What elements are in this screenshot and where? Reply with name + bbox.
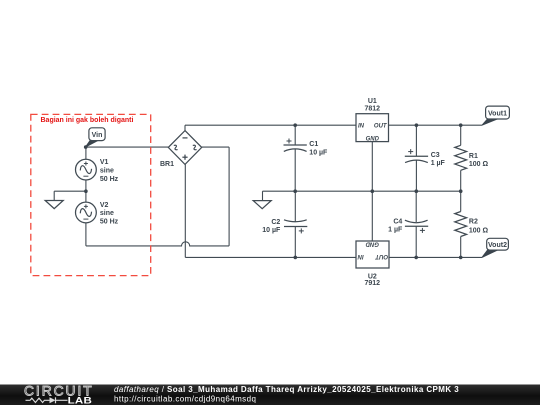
C1 plus xyxy=(287,139,292,144)
capacitor C2 xyxy=(284,220,307,227)
bridge rectifier BR1 xyxy=(168,131,201,165)
C3 plus xyxy=(408,149,413,154)
wire C2 bottom stub xyxy=(294,227,296,258)
svg-text:OUT: OUT xyxy=(374,253,388,259)
wire BR1 top stub xyxy=(184,125,186,130)
wire R2 top stub xyxy=(460,191,462,211)
C2 plus xyxy=(299,228,304,233)
node Vin flag xyxy=(86,128,106,147)
svg-text:OUT: OUT xyxy=(374,123,388,129)
wire R2 bottom stub xyxy=(460,237,462,258)
BR1 plus xyxy=(182,155,187,160)
footer bar xyxy=(0,385,540,405)
wire V2 bottom horizontal with hop xyxy=(86,242,229,246)
node ground rail C3-C4 junction xyxy=(415,189,419,193)
svg-text:IN: IN xyxy=(357,253,364,259)
label C2 xyxy=(262,219,281,234)
node bottom rail R2 junction xyxy=(459,256,463,260)
svg-text:Bagian ini gak boleh diganti: Bagian ini gak boleh diganti xyxy=(41,117,134,124)
label C4 xyxy=(388,218,403,233)
svg-text:C4: C4 xyxy=(393,218,402,225)
wire C1 top stub xyxy=(294,125,296,145)
svg-text:100 Ω: 100 Ω xyxy=(469,227,489,234)
svg-text:V1: V1 xyxy=(100,159,109,166)
ground GND1 (left) xyxy=(45,201,63,209)
red restricted box xyxy=(31,114,151,275)
svg-text:http://circuitlab.com/cdjd9nq6: http://circuitlab.com/cdjd9nq64msdq xyxy=(114,394,256,403)
svg-text:Vout1: Vout1 xyxy=(488,110,507,117)
resistor R1 xyxy=(455,145,467,170)
resistor R2 xyxy=(455,212,467,237)
label C1 xyxy=(309,141,328,156)
node Vout2 flag xyxy=(482,238,508,257)
svg-text:50 Hz: 50 Hz xyxy=(100,176,119,183)
svg-text:Vout2: Vout2 xyxy=(488,242,507,249)
svg-text:C1: C1 xyxy=(309,141,318,148)
svg-text:BR1: BR1 xyxy=(160,161,174,168)
svg-text:1 µF: 1 µF xyxy=(388,227,403,234)
wire bottom rail left segment xyxy=(185,256,356,258)
svg-text:sine: sine xyxy=(100,210,114,217)
wire to BR1 right vertex xyxy=(202,146,229,148)
wire C2 top stub xyxy=(294,191,296,222)
capacitor C4 xyxy=(405,220,428,226)
wire U1 GND stub xyxy=(371,142,373,192)
wire left ground stub xyxy=(53,191,55,200)
svg-text:GND: GND xyxy=(365,241,379,247)
node top rail R1 junction xyxy=(459,123,463,127)
svg-text:daffathareq / Soal 3_Muhamad D: daffathareq / Soal 3_Muhamad Daffa Thare… xyxy=(114,385,459,394)
node bottom rail C2 junction xyxy=(294,256,298,260)
svg-text:Vin: Vin xyxy=(92,132,103,139)
svg-text:R1: R1 xyxy=(469,153,478,160)
label C3 xyxy=(431,152,446,167)
svg-text:7912: 7912 xyxy=(365,280,381,287)
junction dots xyxy=(84,123,463,259)
label R1 xyxy=(469,153,489,168)
node Vout1 flag xyxy=(482,106,509,125)
regulator U2 xyxy=(356,241,389,268)
svg-text:100 Ω: 100 Ω xyxy=(469,161,489,168)
wire C4 bottom stub xyxy=(415,226,417,257)
node top rail C1 junction xyxy=(293,123,297,127)
ground GND2 (middle) xyxy=(253,201,271,209)
source V2 xyxy=(76,202,97,223)
wire top rail left segment xyxy=(185,124,356,126)
wire bottom rail right segment xyxy=(389,256,482,258)
svg-text:IN: IN xyxy=(358,123,365,129)
capacitor C1 xyxy=(284,145,307,151)
svg-text:U1: U1 xyxy=(368,98,377,105)
BR1 minus xyxy=(183,137,188,139)
wire U2 GND stub xyxy=(371,191,373,241)
wire mid ground stub xyxy=(262,191,264,200)
svg-text:LAB: LAB xyxy=(68,397,92,405)
wire R1 top stub xyxy=(460,125,462,145)
C4 plus xyxy=(420,228,425,233)
wire Vin junction to BR1 left xyxy=(86,146,169,148)
wire V2 bottom down xyxy=(85,223,87,246)
svg-text:7812: 7812 xyxy=(365,106,381,113)
wire C3 bottom stub xyxy=(415,161,417,192)
wire C3 top stub xyxy=(415,125,417,156)
BR1 right tilde xyxy=(192,144,198,150)
node ground rail U1-U2 junction xyxy=(371,189,375,193)
wire BR1 bottom stub down xyxy=(184,164,186,257)
svg-text:C2: C2 xyxy=(271,219,280,226)
wire up to BR1 right level xyxy=(228,147,230,246)
label V1 xyxy=(100,159,119,183)
svg-text:GND: GND xyxy=(366,136,380,142)
node V1-V2-ground junction xyxy=(84,189,88,193)
node top rail C3 junction xyxy=(415,123,419,127)
capacitor C3 xyxy=(405,156,428,162)
wire V1 top stub xyxy=(85,147,87,159)
svg-text:10 µF: 10 µF xyxy=(309,149,328,156)
svg-text:10 µF: 10 µF xyxy=(262,227,281,234)
wire R1 bottom stub xyxy=(460,170,462,191)
source V1 xyxy=(76,159,97,180)
wire V1 bottom to ground junction xyxy=(85,180,87,191)
svg-text:C3: C3 xyxy=(431,152,440,159)
node ground rail C1-C2 junction xyxy=(293,189,297,193)
node Vin junction xyxy=(84,145,88,149)
wire top rail right segment xyxy=(389,124,483,126)
svg-text:50 Hz: 50 Hz xyxy=(100,219,119,226)
svg-text:1 µF: 1 µF xyxy=(431,160,446,167)
CircuitLab logo squiggle xyxy=(26,397,68,403)
svg-text:sine: sine xyxy=(100,167,114,174)
wire ground junction to V2 top xyxy=(85,191,87,202)
BR1 left tilde xyxy=(173,144,179,150)
wire C1 bottom stub xyxy=(294,150,296,192)
wire ground junction to left ground xyxy=(54,190,86,192)
label R2 xyxy=(469,218,489,234)
label V2 xyxy=(100,202,119,226)
svg-text:R2: R2 xyxy=(469,218,478,225)
wire mid ground rail xyxy=(263,190,461,192)
node ground rail R1-R2 junction xyxy=(459,189,463,193)
node bottom rail C4 junction xyxy=(414,256,418,260)
wire C4 top stub xyxy=(415,191,417,222)
svg-text:V2: V2 xyxy=(100,202,109,209)
regulator U1 xyxy=(356,114,389,142)
